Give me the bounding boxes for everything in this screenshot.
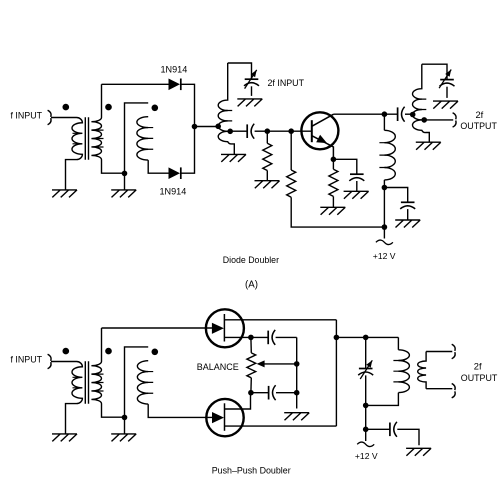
- emitter node dot: [331, 157, 337, 163]
- ground under balance rail: [284, 413, 309, 421]
- inductor L4 (output tank): [413, 64, 430, 142]
- inductor L7 (output link): [418, 352, 426, 389]
- wire L4 top to C7: [422, 64, 447, 79]
- wire L5 top link: [125, 347, 149, 418]
- +12V node dot: [382, 185, 388, 191]
- wire junction to ground (top): [124, 173, 126, 190]
- wire emitter to C4: [333, 159, 356, 174]
- svg-text:1N914: 1N914: [161, 65, 188, 75]
- capacitor C8: [268, 330, 275, 345]
- balance node dot upper: [248, 335, 254, 341]
- wire C4 to ground: [356, 181, 358, 191]
- svg-text:+12 V: +12 V: [373, 251, 396, 261]
- wire T1 secondary top rail: [102, 83, 169, 85]
- svg-text:f INPUT: f INPUT: [11, 111, 43, 121]
- phase dot T2 primary: [63, 348, 70, 355]
- T2 secondary loop ticks: [97, 374, 104, 391]
- label BALANCE: [197, 362, 239, 372]
- label 2f (bottom output): [474, 362, 482, 372]
- wire junction to ground (bottom): [124, 417, 126, 434]
- wire R3 to ground: [332, 196, 334, 207]
- ground under L4: [416, 142, 441, 150]
- node B dot: [288, 128, 294, 134]
- junction dot diode rail: [192, 124, 198, 130]
- T1 secondary loop ticks: [97, 130, 104, 147]
- wire to C8: [251, 336, 268, 338]
- tap dot L2 lower: [227, 129, 233, 135]
- tank bottom dot: [363, 403, 369, 409]
- phase dot L1: [152, 105, 159, 112]
- svg-text:2f: 2f: [476, 110, 484, 120]
- wire pot bottom lead: [250, 378, 252, 393]
- wire L5 bottom to D4: [148, 404, 213, 417]
- variable capacitor C1: [244, 70, 259, 89]
- tank node dot: [363, 335, 369, 341]
- node A dot: [265, 128, 271, 134]
- svg-text:OUTPUT: OUTPUT: [461, 373, 498, 383]
- wire pot top lead: [250, 337, 252, 353]
- wire C8 to balance rail: [276, 336, 297, 338]
- label 1N914 (top): [161, 65, 188, 75]
- label 2f (top output): [476, 110, 484, 120]
- wire L2 top to C1: [228, 63, 252, 79]
- wire D4 bottom lead: [225, 425, 337, 427]
- circled diode D3: [206, 309, 244, 347]
- wire C10 bottom lead: [365, 375, 367, 441]
- wire C10 top lead: [365, 337, 367, 368]
- combiner rail dot: [334, 335, 340, 341]
- wire L2 tap to C2: [232, 130, 248, 132]
- ground under R1: [255, 181, 280, 189]
- variable capacitor C7: [439, 70, 454, 89]
- ground under C11: [406, 448, 431, 456]
- svg-text:Diode Doubler: Diode Doubler: [223, 255, 279, 265]
- wire input to T1 primary: [51, 117, 77, 119]
- ground under C7: [433, 101, 458, 109]
- diode D2 1N914: [169, 167, 181, 179]
- wire collector to L3: [383, 114, 385, 130]
- wire combiner rail: [335, 320, 337, 426]
- resistor R2: [287, 170, 296, 197]
- wire C7 to ground: [446, 87, 448, 98]
- wire node A lead R1: [266, 131, 268, 143]
- ground under T1 primary: [52, 190, 77, 198]
- svg-text:OUTPUT: OUTPUT: [460, 121, 497, 131]
- wiper rail dot: [294, 361, 300, 367]
- diode D1 1N914: [169, 79, 181, 91]
- wire emitter lead R3: [332, 159, 334, 169]
- wire +12V node to C6: [384, 188, 407, 203]
- resistor R3: [329, 169, 338, 196]
- capacitor C6 (supply bypass): [400, 202, 415, 209]
- ground under T2 primary: [52, 434, 77, 442]
- circled diode D4: [206, 399, 243, 436]
- svg-text:BALANCE: BALANCE: [197, 362, 239, 372]
- wire balance rail: [296, 337, 298, 408]
- ground under L2: [221, 154, 246, 162]
- transformer T2 secondary winding: [91, 328, 124, 417]
- wire combiner to tank: [336, 336, 398, 338]
- junction dot T2 bottom: [122, 415, 128, 421]
- f INPUT label (top): [11, 111, 43, 121]
- wire D3 top lead: [224, 319, 336, 321]
- label OUTPUT (top output): [460, 121, 497, 131]
- inductor L5: [137, 361, 153, 404]
- wire D4 top lead: [225, 393, 251, 409]
- ground under C6: [395, 220, 420, 228]
- wire C2 to node A: [255, 130, 268, 132]
- svg-text:2f INPUT: 2f INPUT: [268, 78, 305, 88]
- T1 primary loop ticks: [73, 133, 80, 144]
- wire R2 to +12V rail: [291, 197, 384, 227]
- wire diode node to L2 tap: [195, 126, 219, 128]
- inductor L6 (output tank): [393, 337, 409, 392]
- variable capacitor C10: [358, 360, 373, 379]
- label 2f INPUT: [268, 78, 305, 88]
- inductor L2 (2f input tank): [218, 63, 234, 154]
- ground under T1 secondary junction: [111, 190, 136, 198]
- wire +12V to C11: [366, 428, 390, 430]
- phase dot T1 secondary: [105, 104, 112, 111]
- caption Diode Doubler: [223, 255, 279, 265]
- capacitor C9: [269, 385, 276, 400]
- svg-text:Push–Push Doubler: Push–Push Doubler: [212, 466, 291, 476]
- transformer T1 secondary winding: [91, 84, 124, 173]
- wire L3 to +12V node: [383, 180, 385, 188]
- tap dot L4 upper: [410, 112, 416, 118]
- wire L7 top to terminal: [426, 351, 452, 353]
- wire base Q1: [291, 130, 312, 132]
- balance rail dot: [294, 390, 300, 396]
- transformer T2 primary winding: [66, 362, 83, 434]
- tap dot L2 upper: [215, 124, 221, 130]
- wire L6 bottom: [366, 393, 399, 406]
- svg-text:(A): (A): [245, 280, 258, 291]
- L2 loop ticks: [226, 111, 233, 132]
- capacitor C11 (supply bypass): [390, 422, 397, 437]
- caption Push-Push Doubler: [212, 466, 291, 476]
- output terminal bracket (top): [453, 113, 456, 127]
- inductor L1: [137, 117, 153, 160]
- inductor L3 (RF choke): [379, 130, 395, 180]
- ground under C4: [344, 191, 369, 199]
- potentiometer R4 BALANCE: [247, 353, 256, 378]
- ground under T2 secondary junction: [111, 434, 136, 442]
- caption (A): [245, 280, 258, 291]
- phase dot T2 secondary: [105, 348, 112, 355]
- phase dot T1 primary: [63, 104, 70, 111]
- svg-text:1N914: 1N914: [160, 187, 187, 197]
- wire node A to node B: [267, 130, 291, 132]
- wire L1 top link: [125, 103, 149, 173]
- svg-text:+12 V: +12 V: [355, 451, 378, 461]
- input terminal bracket (top): [48, 110, 51, 124]
- transistor Q1: [301, 112, 338, 159]
- pot wiper arrow: [257, 360, 297, 367]
- phase dot L5: [152, 349, 159, 356]
- wire collector rail: [334, 113, 398, 115]
- +12V off-page squiggle (bottom): [357, 442, 374, 447]
- wire C5 to L4 tap: [405, 113, 413, 115]
- f INPUT label (bottom): [11, 355, 43, 365]
- input terminal bracket (bottom): [48, 354, 51, 368]
- +12V node dot (bottom): [363, 427, 369, 433]
- core T2: [85, 361, 88, 403]
- junction dot T1 bottom: [122, 171, 128, 177]
- wire L4 tap to output: [426, 119, 453, 121]
- label +12 V (bottom): [355, 451, 378, 461]
- wire D1 cathode rail: [181, 84, 194, 173]
- ground under C1: [237, 99, 262, 107]
- wire input to T2 primary: [51, 361, 77, 363]
- capacitor C2: [247, 124, 254, 139]
- resistor R1: [263, 143, 272, 170]
- label +12 V (top): [373, 251, 396, 261]
- wire C1 to ground: [251, 86, 253, 96]
- svg-text:f INPUT: f INPUT: [11, 355, 43, 365]
- output terminal bracket bottom (bottom ckt): [452, 384, 455, 398]
- wire +12V rail down: [383, 188, 385, 239]
- wire node B lead R2: [290, 131, 292, 170]
- svg-text:2f: 2f: [474, 362, 482, 372]
- label 1N914 (bottom): [160, 187, 187, 197]
- wire C6 to ground: [407, 209, 409, 220]
- wire T2 secondary to D3 anode: [102, 327, 214, 329]
- core T1: [85, 117, 88, 159]
- tap dot L4 lower: [421, 117, 427, 123]
- output terminal bracket top (bottom ckt): [452, 344, 455, 358]
- wire L1 bottom to D2: [148, 160, 168, 173]
- wire R1 to ground: [266, 171, 268, 181]
- wire C9 to balance rail: [276, 392, 297, 394]
- ground under R3: [320, 207, 345, 215]
- label OUTPUT (bottom output): [461, 373, 498, 383]
- transformer T1 primary winding: [66, 118, 83, 190]
- +12V off-page squiggle (top): [376, 240, 393, 245]
- rail junction dot +12V: [382, 224, 388, 230]
- wire to C9: [251, 392, 269, 394]
- balance node dot lower: [248, 390, 254, 396]
- capacitor C4 (emitter bypass): [349, 174, 364, 181]
- capacitor C5 (output coupling): [398, 107, 405, 122]
- T2 primary loop ticks: [73, 377, 80, 388]
- wire C11 to ground: [397, 429, 419, 445]
- L4 loop ticks: [420, 99, 427, 120]
- wire D3 bottom lead: [224, 336, 251, 338]
- wire L7 bottom to terminal: [426, 388, 452, 390]
- collector node dot: [382, 111, 388, 117]
